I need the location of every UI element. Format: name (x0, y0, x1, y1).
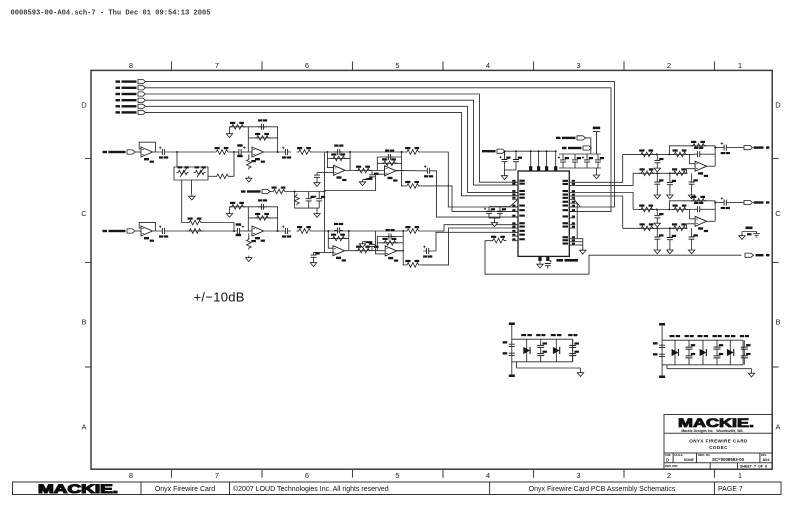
net label blob (754, 201, 764, 203)
ground (189, 194, 195, 200)
svg-text:6: 6 (305, 61, 309, 70)
wire feedback (669, 201, 715, 210)
wire B top line (313, 230, 405, 232)
wire out B- (421, 228, 518, 265)
resistor LR2 (672, 149, 688, 156)
op-amp U1A (141, 147, 154, 163)
ground (654, 193, 660, 199)
resistor R6 (331, 153, 347, 160)
capacitor C25 (595, 154, 604, 168)
junction (233, 151, 235, 153)
wire bus5 (145, 106, 518, 192)
node net BUS5 (116, 104, 146, 108)
resistor RR4 (639, 223, 655, 230)
node net BUS2 (116, 86, 146, 90)
wire (494, 218, 496, 221)
wire VCOM vertical to B3 (324, 231, 326, 252)
wire loop (485, 241, 742, 275)
wire IC to filter L2 (575, 173, 633, 185)
wire (248, 154, 250, 159)
trimmer VR1 (177, 166, 189, 177)
svg-text:SIZE: SIZE (665, 453, 671, 457)
op-amp U3A (141, 226, 154, 242)
capacitor C6 (363, 171, 379, 180)
net label blob (756, 254, 764, 256)
svg-text:PAGE 7: PAGE 7 (718, 486, 743, 493)
wire (328, 238, 349, 240)
capacitor C32 (685, 335, 696, 365)
resistor R3 (255, 133, 271, 140)
wire (402, 171, 405, 186)
svg-text:8: 8 (129, 61, 133, 70)
op-amp U4B (385, 246, 398, 262)
wire (287, 191, 325, 193)
wire (325, 172, 335, 174)
resistor RR5 (672, 223, 688, 230)
resistor R5 (297, 147, 313, 154)
op-amp LU (695, 161, 708, 177)
wire row2 (633, 169, 695, 174)
svg-text:DWG PRD: DWG PRD (665, 464, 678, 468)
wire (715, 147, 721, 149)
wire (248, 217, 277, 219)
resistor R26 (215, 174, 231, 179)
junction (515, 150, 517, 152)
node net LINE-IN-L (103, 150, 135, 154)
wire (248, 137, 277, 139)
capacitor C17 (306, 192, 315, 209)
wire out B cap (432, 232, 518, 251)
svg-text:5: 5 (395, 471, 399, 480)
svg-text:SCALE: SCALE (674, 453, 683, 457)
power flag top (659, 323, 665, 326)
ground (748, 371, 754, 377)
wire (314, 251, 325, 253)
wire (703, 153, 715, 155)
wire (248, 233, 250, 239)
resistor R17 (331, 234, 347, 241)
wire bus6 (145, 112, 518, 195)
wire (690, 154, 695, 163)
wire (596, 168, 598, 173)
wire (516, 362, 518, 368)
svg-text:D: D (775, 100, 781, 109)
capacitor C13 (334, 223, 343, 234)
wire (707, 165, 716, 167)
power bank 1 rails (512, 328, 581, 373)
frame border (91, 70, 772, 469)
wire B4 output to line (402, 231, 404, 251)
svg-text:CODEC: CODEC (709, 445, 728, 450)
capacitor LC4 (667, 173, 676, 193)
wire (559, 167, 601, 169)
capacitor LC3 (654, 173, 663, 193)
svg-text:7: 7 (215, 61, 219, 70)
diode D5 (725, 335, 736, 365)
svg-text:7: 7 (215, 471, 219, 480)
junction (668, 209, 670, 211)
wire (168, 230, 237, 232)
wire +3.3VA rail (505, 150, 556, 152)
wire (396, 170, 405, 172)
power flag bottom (659, 376, 665, 379)
junction (401, 151, 403, 153)
junction (327, 230, 329, 232)
wire bus3 (145, 94, 518, 182)
frame column numbers (129, 61, 742, 480)
wire (270, 191, 271, 193)
diode D4 (698, 335, 709, 365)
capacitor C30 (568, 334, 579, 362)
wire (135, 230, 141, 232)
wire (191, 180, 193, 194)
svg-text:NONE: NONE (684, 458, 695, 462)
op-amp RU (695, 216, 708, 232)
wire (317, 172, 325, 174)
capacitor C1 (159, 147, 168, 159)
ground (667, 248, 673, 254)
capacitor C18 (314, 192, 325, 209)
ground (667, 193, 673, 199)
op-amp U2A (334, 165, 347, 181)
junction (669, 227, 671, 229)
wire feedback (669, 146, 715, 155)
wire (403, 251, 405, 265)
wire (168, 151, 214, 153)
junction (294, 191, 296, 193)
resistor R1 (214, 147, 230, 154)
wire bus1 (145, 82, 614, 207)
IC U5 bottom pin stubs (538, 256, 549, 262)
frame row letters (81, 100, 781, 431)
wire (575, 244, 583, 246)
junction (656, 172, 658, 174)
wire feedback A3 (327, 152, 334, 168)
wire bus4 (145, 100, 518, 185)
capacitor C10 (258, 199, 267, 210)
wire IC to filter R2 (575, 196, 622, 228)
junction (656, 209, 658, 211)
wire (241, 151, 252, 153)
junction (504, 150, 506, 152)
resistor LR4 (639, 168, 655, 175)
ground (314, 181, 320, 187)
node net LINE-IN-R (103, 229, 135, 233)
capacitor C7 (385, 150, 394, 161)
wire reference to channels (324, 152, 326, 231)
wire (230, 126, 249, 128)
wire (377, 162, 401, 164)
svg-text:Mackie Designs Inc. Woodinvi: Mackie Designs Inc. Woodinville, WA (681, 429, 743, 433)
svg-text:DWG. NO.: DWG. NO. (698, 453, 711, 457)
capacitor C15 (386, 229, 395, 240)
capacitor C34 (740, 335, 751, 365)
junction (277, 151, 279, 153)
ground (577, 371, 583, 377)
capacitor RC6 (721, 197, 730, 209)
ground (580, 248, 586, 254)
wire (504, 151, 506, 156)
IC U5 top pin stubs (529, 150, 557, 171)
IC U5 right pin stubs and labels (563, 180, 576, 245)
capacitor LC2 (654, 154, 663, 166)
ground (501, 174, 507, 180)
resistor LR5 (672, 168, 688, 175)
capacitor C3 (282, 147, 291, 159)
wire (135, 151, 141, 153)
capacitor C36 (236, 223, 244, 236)
resistor R7 (356, 166, 372, 173)
wire row2 (623, 224, 695, 229)
resistor R15 (247, 238, 256, 250)
wire (327, 157, 350, 159)
svg-text:+/−10dB: +/−10dB (194, 290, 245, 305)
wire (263, 151, 282, 153)
capacitor RC2 (654, 210, 663, 222)
wire (707, 220, 716, 222)
junction (669, 172, 671, 174)
IC U5 CS42426 body (518, 171, 569, 256)
ground (359, 180, 365, 186)
capacitor RC4 (667, 228, 676, 248)
wire A4 output to top line (401, 152, 403, 171)
resistor R19 (382, 238, 398, 245)
op-amp U4A (333, 246, 346, 262)
capacitor C28 (509, 344, 515, 355)
wire bias B4 (376, 231, 386, 254)
capacitor C21 (513, 151, 522, 170)
diode D3 (670, 335, 681, 365)
ground (654, 166, 660, 172)
capacitor C19 (545, 260, 552, 269)
svg-text:3: 3 (576, 61, 580, 70)
power rail bar (593, 127, 600, 154)
wire feedback A2 (248, 127, 277, 152)
capacitor C31 (659, 345, 665, 356)
junction (176, 151, 178, 153)
wire (402, 170, 424, 172)
resistor RR3 (691, 196, 707, 203)
wire trimmer network (174, 152, 208, 180)
svg-text:SC=0008593-00: SC=0008593-00 (712, 457, 745, 462)
svg-text:5: 5 (395, 61, 399, 70)
frame row ticks (85, 159, 779, 368)
wire feedback loop U1A (139, 142, 159, 152)
wire out B+ (421, 225, 518, 231)
resistor R11 (187, 218, 203, 225)
capacitor C12 (311, 252, 320, 260)
ground (688, 248, 694, 254)
wire out A cap (433, 171, 518, 217)
node net VCOM (241, 189, 270, 193)
svg-text:1: 1 (738, 61, 742, 70)
resistor R24 (491, 236, 507, 243)
svg-text:2: 2 (667, 61, 671, 70)
svg-text:B: B (775, 318, 780, 327)
resistor R8 (382, 158, 398, 165)
wire (229, 127, 231, 132)
junction (348, 230, 350, 232)
ground (359, 242, 365, 248)
wire (715, 202, 721, 204)
resistor R4 (247, 158, 256, 170)
node net PD/RST (556, 136, 585, 140)
wire feedback B3 (328, 231, 334, 248)
resistor R10 (405, 181, 421, 188)
wire (703, 208, 715, 210)
wire VCOM to A4 (325, 174, 386, 190)
resistor RR1 (639, 205, 655, 212)
resistor R9 (405, 147, 421, 154)
wire (666, 365, 668, 369)
resistor R23 (295, 194, 300, 206)
ground (739, 234, 745, 240)
wire (396, 250, 403, 252)
junction (656, 227, 658, 229)
wire (489, 199, 518, 206)
ground (310, 261, 316, 267)
node tick (574, 200, 580, 207)
power bank 2 rails (662, 329, 751, 375)
junction (233, 230, 235, 232)
ground (246, 256, 252, 262)
capacitor C8 (424, 165, 433, 177)
svg-text:1: 1 (738, 471, 742, 480)
title block fields (665, 453, 770, 469)
resistor RR2 (672, 205, 688, 212)
resistor R20 (405, 226, 421, 233)
capacitor C27 (497, 207, 506, 219)
ground (491, 221, 497, 227)
wire (182, 180, 187, 223)
ground (593, 173, 599, 179)
junction (349, 151, 351, 153)
capacitor C29 (536, 334, 547, 362)
wire (349, 152, 351, 170)
wire cluster rail (559, 153, 601, 155)
capacitor C11 (282, 226, 291, 238)
svg-text:4: 4 (486, 471, 490, 480)
svg-text:C: C (81, 209, 87, 218)
trimmer VR2 (194, 166, 206, 177)
IC U5 name label (557, 259, 564, 262)
capacitor C23 (572, 154, 581, 168)
capacitor C33 (713, 335, 724, 365)
power flag bottom (509, 375, 515, 378)
junction (326, 151, 328, 153)
wire feedback B4 (377, 237, 403, 251)
wire feedback B2 (248, 207, 277, 231)
junction (714, 202, 716, 204)
capacitor LC6 (721, 142, 730, 154)
wire row1 (633, 209, 694, 211)
wire (590, 148, 593, 154)
wire (377, 242, 403, 244)
wire (345, 170, 405, 172)
wire (585, 138, 590, 148)
wire (714, 201, 716, 222)
resistor R2 (230, 122, 246, 129)
capacitor C14 (363, 242, 379, 251)
resistor R21 (405, 260, 421, 267)
svg-text:A04: A04 (763, 458, 771, 462)
op-amp U2B (385, 166, 398, 182)
wire (230, 206, 249, 208)
wire (230, 151, 239, 153)
capacitor C4 (314, 173, 320, 181)
resistor R12 (187, 229, 203, 234)
chassis ground (753, 234, 759, 238)
junction (714, 147, 716, 149)
capacitor C5 (334, 145, 343, 156)
svg-text:3: 3 (576, 471, 580, 480)
wire (229, 207, 231, 212)
wire (504, 170, 506, 174)
bottom title bar (13, 482, 782, 495)
svg-text:6: 6 (305, 471, 309, 480)
resistor R22 (271, 187, 287, 194)
capacitor C22 (558, 154, 569, 168)
IC U5 left pin stubs and labels (512, 180, 525, 241)
wire (730, 202, 744, 204)
svg-text:D: D (81, 100, 87, 109)
ground (688, 193, 694, 199)
capacitor C26 (484, 207, 495, 219)
svg-text:©2007 LOUD Technologies Inc. A: ©2007 LOUD Technologies Inc. All rights … (233, 485, 389, 493)
junction (402, 230, 404, 232)
wire (505, 169, 517, 171)
frame column ticks (172, 61, 715, 477)
capacitor LC1 (694, 147, 703, 158)
junction (656, 153, 658, 155)
node net +3.3VA (482, 149, 505, 153)
svg-text:0008593-00-A04.sch-7 - Thu Dec: 0008593-00-A04.sch-7 - Thu Dec 01 09:54:… (11, 10, 211, 18)
svg-text:SHEET 7 OF 8: SHEET 7 OF 8 (740, 465, 767, 469)
ground (226, 132, 232, 138)
svg-text:8: 8 (129, 471, 133, 480)
capacitor C24 (582, 154, 593, 168)
node net BUS6 (116, 110, 146, 114)
op-amp U3B (252, 226, 265, 242)
wire (575, 203, 577, 238)
net label blob (754, 146, 764, 148)
wire (489, 217, 500, 219)
resistor R13 (230, 202, 246, 209)
node net BUS4 (116, 98, 146, 102)
capacitor C2 (258, 119, 267, 130)
wire (575, 241, 583, 243)
wire A top line (313, 151, 405, 153)
node net DIG-OUT (745, 253, 753, 257)
wire (377, 156, 401, 158)
wire (730, 147, 744, 149)
ground (226, 211, 232, 217)
capacitor C16 (423, 246, 432, 258)
ground (246, 176, 252, 182)
wire bus2 (145, 88, 611, 212)
node net BUS3 (116, 92, 146, 96)
svg-text:A: A (775, 423, 780, 432)
wire IC to filter L1 (575, 154, 622, 182)
wire feedback loop U3A (139, 222, 159, 231)
svg-text:B: B (81, 318, 86, 327)
capacitor C35 (237, 144, 245, 157)
wire (208, 175, 215, 177)
capacitor RC3 (654, 228, 663, 248)
diode D2 (551, 334, 562, 362)
junction (277, 230, 279, 232)
wire feedback tap A (231, 152, 235, 176)
